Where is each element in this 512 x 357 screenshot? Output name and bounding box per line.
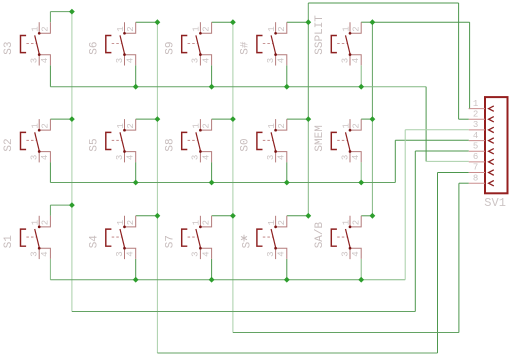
svg-text:3: 3 bbox=[340, 251, 350, 256]
wire S2 pin4 drop to row 2 bus bbox=[49, 162, 51, 182]
switch SA/B bbox=[314, 216, 361, 259]
junction column 1 row 3 hook bbox=[69, 202, 75, 208]
svg-text:4: 4 bbox=[277, 155, 287, 160]
switch S5 bbox=[88, 119, 135, 162]
wire S9 pin2 to column 3 net bbox=[212, 21, 233, 23]
svg-text:4: 4 bbox=[201, 251, 211, 256]
wire S7 pin4 drop to row 3 bus bbox=[211, 259, 213, 280]
junction column 5 row 3 hook bbox=[370, 213, 376, 219]
junction row 1 bus at S9 pin4 bbox=[209, 84, 215, 90]
wire column 4 vertical upper bbox=[307, 3, 309, 119]
wire SMEM pin4 drop to row 2 bus bbox=[360, 162, 362, 182]
svg-text:1: 1 bbox=[267, 123, 277, 128]
svg-text:2: 2 bbox=[41, 123, 51, 128]
svg-text:4: 4 bbox=[201, 155, 211, 160]
wire S3 pin2 to column 1 net bbox=[50, 12, 72, 23]
wire S# pin4 drop to row 1 bus bbox=[286, 65, 288, 86]
junction column 5 row 1 hook bbox=[370, 19, 376, 25]
svg-text:3: 3 bbox=[266, 58, 276, 63]
wire column 4 net to SV1 pin 2 bbox=[308, 3, 469, 119]
wire column 2 vertical bbox=[156, 22, 158, 353]
svg-text:6: 6 bbox=[473, 152, 478, 162]
svg-text:1: 1 bbox=[341, 123, 351, 128]
wire S0 pin4 drop to row 2 bus bbox=[286, 162, 288, 182]
wire column 2 net riser to SV1 pin 7 bbox=[438, 173, 469, 354]
svg-text:2: 2 bbox=[473, 109, 478, 119]
svg-text:SV1: SV1 bbox=[484, 196, 506, 210]
switch S0 bbox=[240, 119, 287, 162]
svg-text:1: 1 bbox=[192, 26, 202, 31]
SV1 pin 1 bbox=[469, 99, 494, 112]
svg-text:1: 1 bbox=[341, 26, 351, 31]
svg-text:3: 3 bbox=[340, 58, 350, 63]
wire column 1 net riser to SV1 pin 5 bbox=[415, 151, 469, 312]
svg-text:S0: S0 bbox=[240, 138, 252, 151]
junction column 4 row 2 hook bbox=[305, 116, 311, 122]
wire row 1 bus riser to SV1 pin 6 bbox=[425, 87, 427, 162]
wire S4 pin4 drop to row 3 bus bbox=[135, 259, 137, 280]
wire S* pin4 drop to row 3 bus bbox=[286, 259, 288, 280]
svg-text:3: 3 bbox=[30, 155, 40, 160]
wire SV1 pin 3 entry bbox=[405, 129, 469, 131]
svg-text:SSPLIT: SSPLIT bbox=[314, 15, 326, 55]
svg-text:2: 2 bbox=[202, 26, 212, 31]
svg-text:S9: S9 bbox=[164, 41, 176, 54]
svg-text:1: 1 bbox=[116, 220, 126, 225]
svg-text:1: 1 bbox=[192, 123, 202, 128]
svg-text:4: 4 bbox=[351, 155, 361, 160]
wire SV1 pin 6 entry bbox=[426, 160, 469, 162]
svg-text:S4: S4 bbox=[88, 235, 100, 249]
SV1 pin 2 bbox=[469, 109, 494, 122]
wire column 3 net bottom run bbox=[233, 332, 459, 334]
svg-text:S2: S2 bbox=[3, 138, 15, 151]
wire S6 pin2 to column 2 net bbox=[136, 21, 158, 23]
wire S6 pin4 drop to row 1 bus bbox=[135, 65, 137, 86]
svg-text:2: 2 bbox=[202, 220, 212, 225]
svg-text:4: 4 bbox=[277, 251, 287, 256]
wire row 1 bus bbox=[50, 86, 361, 88]
wire S* pin2 to column 4 net bbox=[287, 215, 309, 217]
svg-text:1: 1 bbox=[116, 123, 126, 128]
svg-text:4: 4 bbox=[473, 131, 478, 141]
svg-text:4: 4 bbox=[126, 58, 136, 63]
svg-text:2: 2 bbox=[277, 26, 287, 31]
wire S5 pin2 to column 2 net bbox=[136, 118, 158, 120]
junction row 1 bus at SSPLIT pin4 bbox=[358, 84, 364, 90]
wire S5 pin4 drop to row 2 bus bbox=[135, 162, 137, 182]
switch S6 bbox=[88, 22, 135, 65]
junction column 4 row 1 hook bbox=[305, 19, 311, 25]
SV1 pin 4 bbox=[469, 131, 494, 144]
wire S8 pin4 drop to row 2 bus bbox=[211, 162, 213, 182]
svg-text:3: 3 bbox=[266, 155, 276, 160]
switch S* bbox=[241, 216, 287, 259]
wire row 1 bus right segment bbox=[361, 86, 426, 88]
svg-text:2: 2 bbox=[351, 220, 361, 225]
wire S1 pin4 drop to row 3 bus bbox=[49, 259, 51, 280]
junction row 1 bus at S6 pin4 bbox=[133, 84, 139, 90]
svg-text:2: 2 bbox=[351, 123, 361, 128]
wire column 4 vertical lower bbox=[307, 119, 309, 216]
switch S2 bbox=[3, 119, 50, 162]
svg-text:2: 2 bbox=[126, 26, 136, 31]
svg-text:2: 2 bbox=[277, 220, 287, 225]
junction row 3 bus at S7 pin4 bbox=[209, 277, 215, 283]
svg-text:3: 3 bbox=[191, 155, 201, 160]
wire SA/B pin4 drop to row 3 bus bbox=[360, 259, 362, 280]
svg-text:2: 2 bbox=[126, 123, 136, 128]
junction column 2 row 3 hook bbox=[155, 213, 161, 219]
svg-text:3: 3 bbox=[30, 251, 40, 256]
wire S0 pin2 to column 4 net bbox=[287, 118, 309, 120]
wire S2 pin2 to column 1 net bbox=[50, 118, 72, 120]
svg-text:4: 4 bbox=[126, 251, 136, 256]
wire column 5 vertical bbox=[371, 22, 373, 119]
junction row 2 bus at S0 pin4 bbox=[284, 180, 290, 186]
junction column 3 row 2 hook bbox=[230, 116, 236, 122]
svg-text:S8: S8 bbox=[164, 138, 176, 151]
junction row 3 bus at SA/B pin4 bbox=[358, 277, 364, 283]
wire S4 pin2 to column 2 net bbox=[136, 215, 158, 217]
wire row 3 bus right segment bbox=[361, 279, 405, 281]
svg-text:1: 1 bbox=[31, 123, 41, 128]
junction column 3 row 3 hook bbox=[230, 213, 236, 219]
svg-text:3: 3 bbox=[191, 251, 201, 256]
svg-text:8: 8 bbox=[473, 173, 478, 183]
svg-text:2: 2 bbox=[351, 26, 361, 31]
switch S4 bbox=[88, 216, 135, 259]
svg-text:5: 5 bbox=[473, 141, 478, 151]
svg-text:S#: S# bbox=[240, 41, 252, 55]
svg-text:3: 3 bbox=[115, 155, 125, 160]
svg-text:3: 3 bbox=[266, 251, 276, 256]
svg-text:3: 3 bbox=[115, 251, 125, 256]
svg-text:S6: S6 bbox=[88, 41, 100, 54]
switch S7 bbox=[164, 216, 211, 259]
wire SSPLIT pin4 drop to row 1 bus bbox=[360, 65, 362, 86]
junction column 4 row 3 hook bbox=[305, 213, 311, 219]
wire S8 pin2 to column 3 net bbox=[212, 118, 233, 120]
wire row 3 bus bbox=[50, 279, 361, 281]
svg-text:1: 1 bbox=[341, 220, 351, 225]
svg-text:3: 3 bbox=[473, 120, 478, 130]
wire SSPLIT pin2 to column 5 net bbox=[361, 21, 372, 23]
junction column 1 row 1 hook bbox=[69, 9, 75, 15]
switch S# bbox=[240, 22, 287, 65]
junction column 5 row 2 hook bbox=[370, 116, 376, 122]
junction row 2 bus at S8 pin4 bbox=[209, 180, 215, 186]
svg-text:1: 1 bbox=[192, 220, 202, 225]
svg-text:4: 4 bbox=[126, 155, 136, 160]
svg-text:SA/B: SA/B bbox=[314, 221, 326, 248]
svg-text:1: 1 bbox=[116, 26, 126, 31]
svg-text:3: 3 bbox=[340, 155, 350, 160]
wire column 5 vertical lower bbox=[371, 119, 373, 216]
junction row 2 bus at SMEM pin4 bbox=[358, 180, 364, 186]
wire row 3 bus riser to SV1 pin 3 bbox=[404, 130, 406, 280]
svg-text:2: 2 bbox=[126, 220, 136, 225]
switch S3 bbox=[3, 22, 50, 65]
switch SSPLIT bbox=[314, 15, 361, 66]
connector SV1 bbox=[469, 97, 508, 210]
svg-text:1: 1 bbox=[31, 220, 41, 225]
svg-text:1: 1 bbox=[267, 220, 277, 225]
svg-text:4: 4 bbox=[40, 155, 50, 160]
wire S1 pin2 to column 1 net bbox=[50, 205, 72, 216]
SV1 pin 8 bbox=[469, 173, 494, 186]
svg-text:4: 4 bbox=[201, 58, 211, 63]
svg-text:S1: S1 bbox=[3, 235, 15, 249]
svg-text:1: 1 bbox=[473, 99, 478, 109]
svg-text:4: 4 bbox=[277, 58, 287, 63]
SV1 pin 6 bbox=[469, 152, 494, 165]
svg-text:S3: S3 bbox=[3, 41, 15, 54]
wire column 3 net riser to SV1 pin 8 bbox=[459, 183, 469, 332]
SV1 pin 3 bbox=[469, 120, 494, 133]
junction row 3 bus at S4 pin4 bbox=[133, 277, 139, 283]
junction column 1 row 2 hook bbox=[69, 116, 75, 122]
wire column 2 net bottom run bbox=[157, 352, 437, 354]
wire SA/B pin2 to column 5 net bbox=[361, 215, 372, 217]
SV1 pin 5 bbox=[469, 141, 494, 154]
svg-text:4: 4 bbox=[351, 251, 361, 256]
svg-text:7: 7 bbox=[473, 163, 478, 173]
junction row 3 bus at S* pin4 bbox=[284, 277, 290, 283]
svg-text:2: 2 bbox=[277, 123, 287, 128]
svg-text:2: 2 bbox=[202, 123, 212, 128]
wire S# pin2 to column 4 net bbox=[287, 21, 309, 23]
SV1 pin 7 bbox=[469, 163, 494, 176]
junction row 1 bus at S# pin4 bbox=[284, 84, 290, 90]
wire S3 pin4 drop to row 1 bus bbox=[49, 65, 51, 86]
svg-text:4: 4 bbox=[40, 58, 50, 63]
svg-text:4: 4 bbox=[351, 58, 361, 63]
svg-text:S7: S7 bbox=[164, 235, 176, 248]
svg-text:3: 3 bbox=[115, 58, 125, 63]
wire SMEM pin2 to column 5 net bbox=[361, 118, 372, 120]
wire column 1 net bottom run bbox=[72, 311, 415, 313]
wire row 2 bus bbox=[50, 182, 395, 184]
wire column 3 vertical bbox=[232, 22, 234, 332]
switch SMEM bbox=[314, 119, 361, 162]
svg-text:3: 3 bbox=[191, 58, 201, 63]
junction column 3 row 1 hook bbox=[230, 19, 236, 25]
svg-text:3: 3 bbox=[30, 58, 40, 63]
svg-text:1: 1 bbox=[31, 26, 41, 31]
svg-text:S5: S5 bbox=[88, 138, 100, 151]
wire row 2 bus to SV1 pin 4 bbox=[395, 140, 469, 182]
svg-text:S: S bbox=[242, 241, 254, 248]
svg-text:1: 1 bbox=[267, 26, 277, 31]
wire column 1 vertical bbox=[71, 12, 73, 312]
wire column 5 net to SV1 pin 1 bbox=[372, 22, 469, 108]
svg-text:SMEM: SMEM bbox=[314, 125, 326, 151]
junction column 2 row 2 hook bbox=[155, 116, 161, 122]
switch S8 bbox=[164, 119, 211, 162]
svg-text:2: 2 bbox=[41, 220, 51, 225]
junction row 2 bus at S5 pin4 bbox=[133, 180, 139, 186]
junction column 2 row 1 hook bbox=[155, 19, 161, 25]
switch S9 bbox=[164, 22, 211, 65]
wire S7 pin2 to column 3 net bbox=[212, 215, 233, 217]
svg-text:4: 4 bbox=[40, 251, 50, 256]
wire S9 pin4 drop to row 1 bus bbox=[211, 65, 213, 86]
switch S1 bbox=[3, 216, 50, 259]
svg-text:2: 2 bbox=[41, 26, 51, 31]
